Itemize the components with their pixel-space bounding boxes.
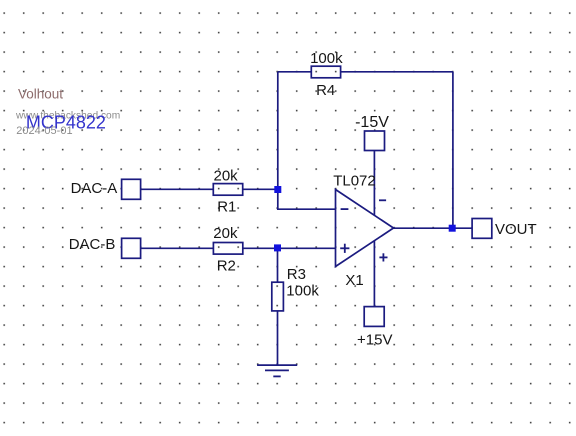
svg-text:R2: R2: [217, 257, 236, 274]
svg-text:20k: 20k: [214, 167, 239, 184]
wire feedback top right segment: [341, 71, 453, 73]
svg-text:100k: 100k: [310, 50, 343, 67]
svg-text:+15V: +15V: [357, 331, 392, 348]
svg-text:TL072: TL072: [333, 173, 376, 190]
resistor R1: [213, 184, 242, 196]
output node junction: [449, 225, 456, 232]
wire feedback right vertical: [452, 72, 454, 228]
svg-text:R3: R3: [287, 266, 306, 283]
op-amp inverting input minus sign: [341, 208, 349, 210]
op-amp non-inverting input plus sign: [340, 247, 349, 249]
resistor R3: [272, 282, 284, 311]
wire R1 to node A: [243, 188, 278, 190]
svg-text:DAC-A: DAC-A: [71, 180, 118, 197]
power port -15V: [365, 131, 385, 151]
wire node A to op-amp inverting input: [277, 208, 336, 210]
wire feedback top left segment: [278, 71, 312, 73]
power port +15V: [364, 307, 384, 327]
node B junction: [274, 244, 281, 251]
port VOUT: [472, 219, 492, 239]
svg-text:20k: 20k: [213, 225, 238, 242]
op-amp X1 triangle: [336, 190, 394, 267]
wire DAC-B port to R2: [141, 247, 214, 249]
port DAC-B: [122, 238, 141, 258]
wire R2 to op-amp non-inverting input: [243, 247, 336, 249]
wire op-amp output to VOUT: [394, 227, 473, 229]
resistor R2: [213, 243, 242, 255]
port DAC-A: [122, 179, 141, 199]
svg-text:X1: X1: [345, 272, 363, 289]
wire feedback left vertical: [277, 72, 279, 209]
wire DAC-A port to R1: [141, 188, 214, 190]
svg-text:VOUT: VOUT: [495, 221, 537, 238]
svg-text:DAC-B: DAC-B: [69, 236, 116, 253]
wire op-amp to +15V supply: [373, 241, 375, 307]
resistor R4: [311, 66, 340, 78]
ground symbol: [257, 364, 297, 366]
svg-text:-15V: -15V: [355, 114, 389, 131]
svg-text:Volhout: Volhout: [18, 86, 63, 101]
wire node B to R3: [277, 248, 279, 282]
wire -15V supply to op-amp: [373, 151, 375, 216]
op-amp positive supply pin plus sign: [379, 256, 387, 258]
svg-text:R4: R4: [316, 82, 335, 99]
node A junction: [274, 186, 281, 193]
wire R3 to ground: [277, 311, 279, 365]
op-amp negative supply pin minus sign: [379, 199, 386, 201]
svg-text:2024-05-01: 2024-05-01: [16, 125, 72, 137]
svg-text:R1: R1: [217, 199, 236, 216]
svg-text:100k: 100k: [286, 283, 319, 300]
